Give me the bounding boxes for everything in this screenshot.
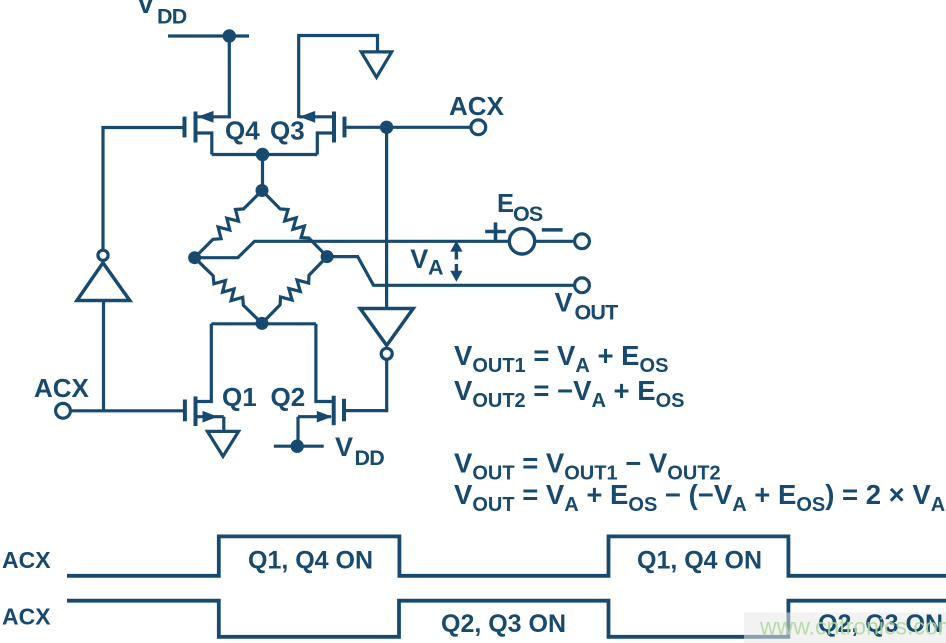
svg-text:V: V	[410, 244, 428, 274]
label EOS	[497, 190, 543, 226]
waveform ACX 1	[67, 536, 946, 575]
svg-text:V: V	[555, 287, 573, 317]
terminal EOS output	[575, 234, 590, 249]
net VDD stub	[274, 445, 324, 448]
wire EOS to terminal	[536, 240, 574, 243]
plus sign	[485, 222, 506, 240]
svg-text:www.cntronics.com: www.cntronics.com	[759, 614, 946, 640]
svg-text:OS: OS	[513, 202, 543, 226]
wire ACX to inverter U2	[385, 127, 388, 310]
transistor Q4	[185, 111, 261, 155]
wire VDD to Q4 source	[197, 36, 229, 117]
wire ACX top	[345, 126, 470, 129]
svg-text:Q3: Q3	[270, 116, 305, 146]
svg-text:Q2: Q2	[271, 382, 306, 412]
wire ACX bottom to Q1 gate	[72, 409, 185, 412]
svg-text:Q1: Q1	[222, 382, 257, 412]
resistor R4 (bridge bottom-right)	[262, 257, 327, 324]
node bridge left	[188, 251, 201, 264]
transistor Q2	[271, 324, 345, 446]
inverter U1	[77, 250, 130, 300]
transistor Q3	[270, 111, 345, 155]
svg-text:DD: DD	[157, 5, 187, 29]
svg-text:Q2, Q3 ON: Q2, Q3 ON	[441, 610, 566, 638]
terminal ACX top	[471, 120, 486, 135]
ground symbol top	[361, 52, 392, 77]
svg-text:OUT: OUT	[575, 301, 619, 325]
wire bridge right tap to VOUT	[327, 257, 573, 286]
node bridge top	[256, 184, 269, 197]
terminal ACX bottom	[56, 403, 71, 418]
svg-text:Q4: Q4	[225, 116, 260, 146]
svg-text:V: V	[137, 0, 155, 19]
ground symbol Q1	[207, 431, 238, 456]
watermark badge	[744, 613, 946, 643]
waveform ACX 2	[67, 601, 946, 637]
svg-text:ACX: ACX	[449, 91, 505, 121]
net VDD top label	[137, 0, 187, 29]
resistor R2 (bridge top-right)	[262, 191, 327, 257]
svg-text:Q1, Q4 ON: Q1, Q4 ON	[637, 547, 762, 575]
svg-text:DD: DD	[355, 446, 385, 470]
wire bridge left tap to EOS	[195, 241, 509, 257]
arrow VA (double headed)	[450, 241, 462, 282]
minus sign	[542, 228, 563, 232]
wire VDD rail	[168, 34, 249, 37]
wire inverter U1 to Q4 gate	[103, 128, 185, 250]
junction dot VDD rail	[223, 29, 236, 42]
node bridge bottom	[256, 317, 269, 330]
wire inverter U2 to Q2 gate	[344, 361, 387, 411]
source EOS circle	[509, 229, 534, 254]
net VDD bottom label	[335, 432, 384, 470]
wire rail to bridge top	[261, 155, 264, 191]
wire ACX to inverter U1	[102, 301, 105, 411]
resistor R1 (bridge top-left)	[195, 191, 262, 258]
transistor Q1	[185, 324, 257, 432]
label VA	[410, 244, 443, 279]
wire Q1/Q2 source rail	[211, 322, 316, 325]
label VOUT	[555, 287, 619, 324]
svg-text:A: A	[428, 255, 444, 279]
junction dot drain rail	[256, 148, 269, 161]
svg-text:Q1, Q4 ON: Q1, Q4 ON	[248, 547, 373, 575]
node bridge right	[321, 250, 334, 263]
junction dot ACX top	[380, 121, 393, 134]
junction dot VDD stub	[291, 440, 304, 453]
wire Q3 source to ground	[299, 36, 378, 119]
svg-text:ACX: ACX	[34, 373, 90, 403]
inverter U2	[360, 309, 413, 360]
svg-text:E: E	[497, 190, 514, 218]
resistor R3 (bridge bottom-left)	[195, 258, 262, 324]
svg-text:V: V	[335, 432, 353, 462]
wire Q4/Q3 drain rail	[212, 153, 317, 156]
svg-text:ACX: ACX	[2, 603, 51, 629]
svg-text:ACX: ACX	[2, 547, 51, 573]
terminal VOUT	[575, 278, 590, 293]
